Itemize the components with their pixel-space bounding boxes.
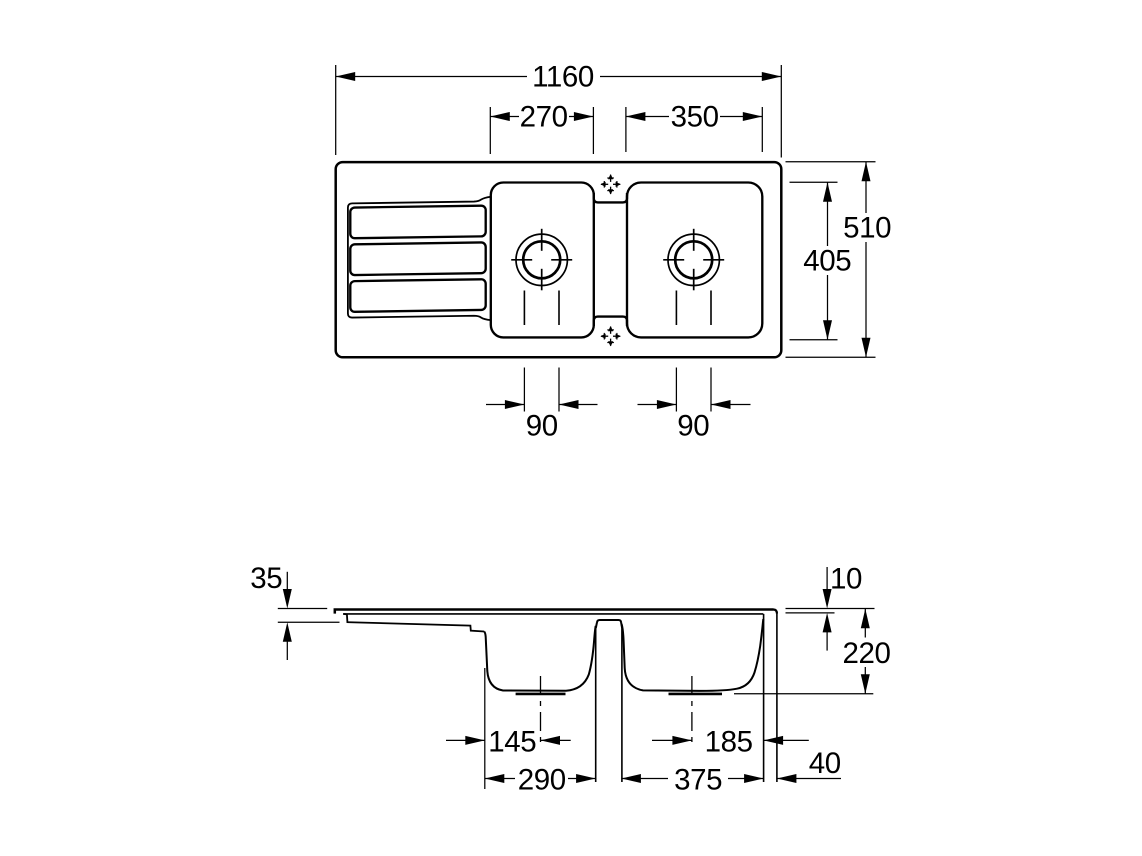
svg-text:375: 375 xyxy=(674,763,722,796)
svg-text:220: 220 xyxy=(842,637,890,670)
svg-text:1160: 1160 xyxy=(532,61,594,94)
left drain xyxy=(511,229,572,291)
divider right wall / extension xyxy=(621,626,623,782)
svg-text:145: 145 xyxy=(488,725,536,758)
right drain xyxy=(663,229,724,291)
sink outline xyxy=(336,162,782,357)
sink outer right wall / extension xyxy=(776,612,778,782)
dimension 145 xyxy=(446,739,485,741)
left drain centerline xyxy=(540,676,542,747)
dimension 90 left xyxy=(523,368,525,412)
svg-text:270: 270 xyxy=(520,101,568,134)
drainboard groove 3 xyxy=(350,279,485,312)
dimension 510 xyxy=(786,161,876,163)
svg-text:35: 35 xyxy=(250,562,282,595)
svg-text:405: 405 xyxy=(803,245,851,278)
svg-text:90: 90 xyxy=(526,409,558,442)
divider left wall / extension xyxy=(595,626,597,782)
dimension 185 xyxy=(652,739,692,741)
rim top surface xyxy=(335,610,774,614)
dimension 40 xyxy=(777,774,797,783)
drainboard surface slope xyxy=(350,622,484,631)
left bowl outer bottom xyxy=(516,693,566,696)
right bowl outer bottom xyxy=(669,693,723,696)
dimension 220 xyxy=(861,609,870,629)
drainboard group (slightly skewed grooves) xyxy=(348,197,491,322)
left bowl section xyxy=(484,626,596,691)
dimension 270 xyxy=(489,107,491,154)
tap hole bottom xyxy=(600,326,620,346)
dimension 375 xyxy=(621,774,641,783)
svg-text:350: 350 xyxy=(671,101,719,134)
rim right corner xyxy=(774,610,777,614)
tap hole top xyxy=(600,174,620,194)
left rim step xyxy=(343,614,350,622)
bottom channel notch xyxy=(594,317,627,326)
right bowl xyxy=(627,183,762,338)
right bowl outer wall / extension xyxy=(763,614,765,782)
dimension 1160 xyxy=(335,65,337,155)
drainboard groove 1 xyxy=(350,206,485,239)
right drain witness stubs inside bowl xyxy=(675,291,677,326)
left bowl xyxy=(491,183,594,338)
drainboard contour xyxy=(348,197,491,322)
divider top xyxy=(596,620,622,628)
svg-text:185: 185 xyxy=(705,725,753,758)
dimension 405 xyxy=(790,181,838,183)
dimension 290 xyxy=(485,774,505,783)
svg-text:90: 90 xyxy=(677,409,709,442)
svg-text:10: 10 xyxy=(830,562,862,595)
svg-text:510: 510 xyxy=(843,212,891,245)
dimension 90 right xyxy=(675,368,677,412)
rim underside xyxy=(343,613,763,615)
svg-text:290: 290 xyxy=(518,763,566,796)
right bowl section xyxy=(622,619,764,691)
dimension 350 xyxy=(625,107,627,152)
left drain witness stubs inside bowl xyxy=(523,291,525,326)
right drain centerline xyxy=(691,676,693,746)
left bowl wall extension xyxy=(484,668,486,789)
drainboard groove 2 xyxy=(350,242,485,275)
svg-text:40: 40 xyxy=(809,747,841,780)
top channel notch xyxy=(594,193,627,202)
